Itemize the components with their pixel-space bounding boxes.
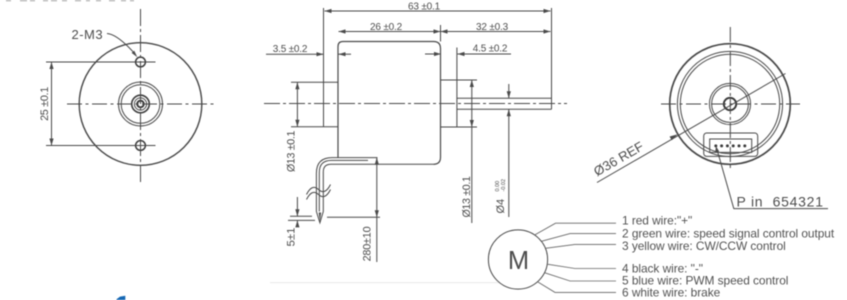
svg-text:4.5 ±0.2: 4.5 ±0.2 [473, 44, 508, 55]
dim Ø4 line lower [508, 109, 510, 217]
right boss bottom edge + ext [441, 126, 478, 128]
clipped text remnants top-left [6, 0, 134, 1]
rear outer circle [670, 44, 791, 165]
svg-text:280±10: 280±10 [362, 226, 374, 261]
cable middle line [319, 160, 368, 211]
dim 3.5 arrow line right [339, 53, 352, 55]
bottom hole cross horizontal [126, 145, 156, 147]
Ø36 REF leader line [597, 74, 786, 183]
motor body outline [338, 42, 441, 165]
dim 25 ext bottom [46, 145, 134, 147]
cable top line / 280 ext [316, 158, 377, 212]
blue logo fragment bottom-left [117, 296, 126, 300]
dim text Ø4 with tolerance [495, 179, 507, 214]
svg-text:5±1: 5±1 [286, 228, 298, 247]
dim Ø4 line upper [508, 84, 510, 98]
wire 3 line [545, 244, 616, 248]
wire 2 line [541, 234, 616, 242]
svg-text:2-M3: 2-M3 [72, 27, 104, 42]
svg-text:M: M [508, 247, 529, 275]
hub ring inner [121, 85, 160, 124]
ext line for 26/32 at body right [440, 25, 442, 42]
dim Ø13 left line [296, 82, 298, 126]
shaft end / 63 ext right [551, 8, 553, 109]
left boss bottom edge + Ø13 ext [291, 126, 338, 128]
rear shaft bold circle [724, 98, 736, 110]
horizontal centerline rear [661, 103, 800, 105]
cable break symbol [307, 185, 331, 195]
connector outer rect [704, 133, 758, 156]
shaft circle thin [134, 98, 146, 110]
svg-text:Ø13 ±0.1: Ø13 ±0.1 [461, 176, 473, 218]
dim 63 line [325, 10, 551, 12]
hub ring outer [119, 82, 163, 126]
dim Ø13 right line [471, 80, 473, 223]
top hole cross horizontal [126, 61, 156, 63]
rear rim circle b [680, 54, 779, 153]
svg-text:3 yellow wire: CW/CCW control: 3 yellow wire: CW/CCW control [622, 239, 786, 253]
vertical centerline left view [140, 9, 142, 184]
svg-text:Ø13 ±0.1: Ø13 ±0.1 [286, 131, 298, 173]
wire 1 line [535, 223, 616, 235]
dim 5 arrows [296, 197, 298, 216]
dim 3.5 arrow line left [266, 53, 324, 55]
connector inner rect [710, 139, 752, 152]
rear hub circle a [709, 83, 750, 124]
dim 280 line [376, 158, 378, 262]
rear rim circle a [677, 51, 782, 156]
horizontal centerline left view [67, 103, 216, 105]
svg-text:25 ±0.1: 25 ±0.1 [39, 87, 51, 121]
ext line 4.5 at boss right face [456, 48, 458, 80]
rear hub circle b [712, 86, 749, 123]
motor circle M [488, 230, 547, 289]
wire 5 line [545, 273, 617, 281]
svg-text:3.5 ±0.2: 3.5 ±0.2 [273, 44, 308, 55]
left boss face / 63 ext left [323, 8, 325, 127]
shaft circle bold [132, 95, 150, 113]
vertical centerline rear [729, 27, 731, 170]
centerline middle view [264, 103, 567, 105]
P label underline [734, 208, 829, 210]
mounting hole bottom [136, 141, 146, 151]
svg-text:P in 654321: P in 654321 [737, 194, 824, 210]
dim 4.5 arrow line right [458, 53, 512, 55]
dim 4.5 arrow line left [425, 53, 441, 55]
right boss right face [456, 80, 458, 127]
leader 2-M3 [107, 34, 136, 55]
dim 26/32 line [339, 31, 551, 33]
left boss top edge + Ø13 ext [291, 81, 338, 83]
dim 25 ext top [46, 61, 134, 63]
dim 280 ext line [327, 216, 380, 218]
svg-text:26 ±0.2: 26 ±0.2 [370, 22, 403, 33]
P label leader [717, 151, 734, 209]
svg-text:-0.02: -0.02 [501, 179, 507, 192]
connector pins [714, 144, 746, 147]
body bottom edge into cable sheath [323, 164, 433, 211]
wire 6 line [538, 282, 617, 293]
right boss top edge + ext [441, 79, 478, 81]
svg-text:Ø4: Ø4 [495, 199, 507, 214]
cable tip [316, 212, 323, 223]
svg-text:63 ±0.1: 63 ±0.1 [408, 1, 441, 12]
svg-text:6 white wire: brake: 6 white wire: brake [622, 286, 721, 300]
shaft top line [457, 97, 552, 99]
dim 25 line [51, 62, 53, 146]
shaft center circle dark [137, 101, 144, 108]
faint table line [270, 282, 499, 284]
mounting hole top [136, 57, 146, 67]
shaft bottom line [457, 108, 552, 110]
dim 5 ext lines [290, 215, 312, 217]
wire 4 line [547, 264, 616, 268]
svg-text:32 ±0.3: 32 ±0.3 [476, 22, 509, 33]
motor front outer circle [79, 43, 202, 166]
